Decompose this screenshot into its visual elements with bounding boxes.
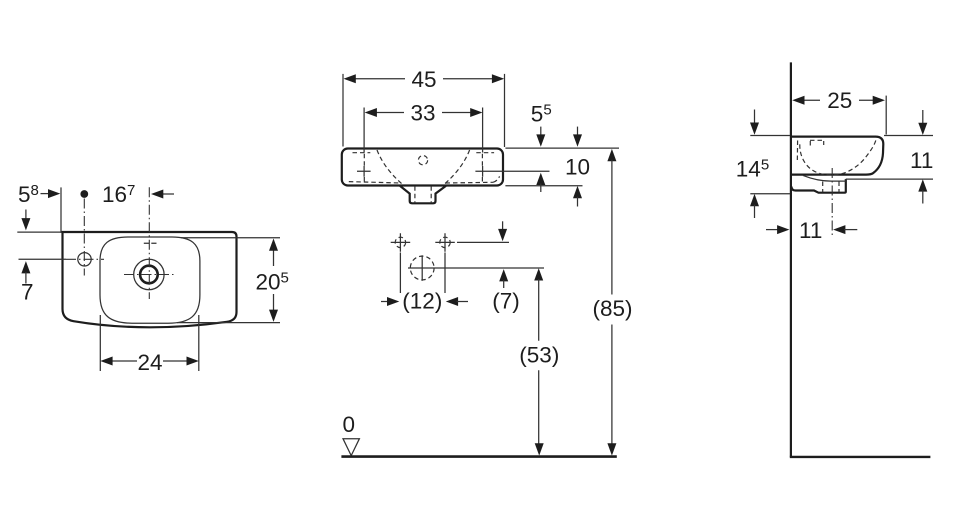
- svg-text:0: 0: [343, 412, 356, 437]
- dim 16'7 arrow left: [162, 193, 174, 195]
- wall line: [790, 62, 792, 456]
- svg-text:33: 33: [411, 101, 436, 126]
- bottom reference line left (14'5): [750, 193, 790, 195]
- dim 24 line: [111, 360, 189, 362]
- floor line (side view): [790, 456, 931, 458]
- svg-text:(53): (53): [519, 342, 559, 367]
- hidden ledge dash top-left: [353, 152, 371, 154]
- extension lines 24: [100, 315, 199, 371]
- dim 11 bottom (wall to drain) arrows: [766, 229, 778, 231]
- svg-text:7: 7: [21, 280, 34, 305]
- bowl underside thin curve: [803, 175, 846, 181]
- drain inner circle: [140, 266, 158, 284]
- svg-text:(85): (85): [593, 296, 633, 321]
- svg-text:24: 24: [138, 350, 163, 375]
- drain crosshair horizontal: [124, 274, 174, 276]
- basin body (front): [342, 149, 503, 186]
- dim 10 bottom arrow (up): [573, 186, 582, 198]
- svg-text:11: 11: [799, 218, 822, 243]
- dim (7) bottom arrow: [499, 269, 508, 281]
- drain outer circle: [134, 259, 164, 289]
- bottom reference line right: [505, 185, 582, 187]
- hidden bottom line right: [446, 181, 494, 184]
- arrow down to top edge: [25, 210, 27, 221]
- tap hole cross left: [357, 166, 371, 177]
- floor line (front view): [341, 455, 616, 458]
- tap hole cross right: [475, 166, 489, 177]
- dim (7) top arrow: [502, 221, 504, 231]
- hidden trap pipe dashes: [823, 182, 839, 193]
- overflow hole dashed circle: [418, 156, 427, 165]
- fixing holes extension lines down: [400, 253, 445, 294]
- extension line 20'5 bottom: [177, 322, 280, 324]
- overflow slot marks: [144, 242, 157, 244]
- extension line 20'5 top: [181, 237, 280, 239]
- extension line 25 right: [885, 96, 887, 135]
- funnel hidden pipe dashes: [415, 186, 431, 203]
- svg-text:25: 25: [827, 88, 852, 113]
- hidden ledge dash top-right: [476, 152, 494, 154]
- hidden overflow channel dash: [796, 141, 798, 163]
- extension line 45 right: [504, 74, 506, 147]
- fixing hole line right extension: [457, 241, 509, 243]
- dim 45 line: [355, 78, 494, 80]
- dim 20'5 vertical line: [273, 249, 275, 312]
- dim 14'5 top arrow: [754, 110, 756, 125]
- dim 5'8 arrow right: [41, 193, 51, 195]
- dim 11 right top arrow: [922, 110, 924, 125]
- fixing hole left (cross + dashed circle): [391, 233, 411, 251]
- tap hole reference line right: [489, 170, 550, 172]
- tap hole centerline vertical: [83, 199, 85, 276]
- fixing hole right (cross + dashed circle): [435, 233, 455, 251]
- tap hole circle: [78, 253, 91, 266]
- basin outer body (plan): [63, 232, 237, 327]
- extension line 45 left: [342, 74, 344, 147]
- drain funnel: [400, 186, 446, 203]
- svg-text:(7): (7): [492, 289, 520, 314]
- dim 33 line: [376, 112, 472, 114]
- basin profile (side): [792, 137, 883, 175]
- top reference line right (11): [884, 135, 933, 137]
- dim (12) arrows: [381, 301, 390, 303]
- drain line extension right: [408, 267, 544, 269]
- svg-text:167: 167: [102, 182, 135, 207]
- siphon cover box: [792, 179, 846, 193]
- svg-text:(12): (12): [402, 289, 442, 314]
- inner bowl (plan): [100, 237, 200, 323]
- svg-text:55: 55: [531, 102, 552, 127]
- extension line 33 right: [482, 108, 484, 153]
- dim 5'5 arrow: [540, 127, 542, 137]
- hidden tap hole dashes (deck): [810, 140, 824, 145]
- svg-text:45: 45: [412, 67, 437, 92]
- hidden bowl arc (side): [800, 140, 876, 175]
- dim 14'5 bottom arrow: [750, 194, 759, 206]
- dim 10 left arrow (down): [577, 127, 579, 137]
- arrow up to tap line: [21, 261, 30, 273]
- extension line left edge (5-8 ref): [60, 187, 62, 232]
- svg-text:205: 205: [256, 270, 289, 295]
- hidden bowl right diagonal: [445, 150, 470, 184]
- dim (85) line: [607, 149, 616, 161]
- tap hole reference line left: [19, 258, 67, 260]
- dim 11 right bottom arrow: [918, 179, 927, 191]
- extension line 33 left: [363, 108, 365, 153]
- hidden bottom line left: [349, 182, 401, 183]
- svg-text:58: 58: [18, 182, 39, 207]
- hidden vertical dashes near left cross: [363, 154, 365, 182]
- dim 5'5 bottom arrow (up): [536, 173, 545, 185]
- top edge reference line left: [17, 231, 61, 233]
- drain trap vertical crosshair: [421, 255, 423, 280]
- basin centerline vertical: [148, 187, 150, 299]
- svg-text:145: 145: [736, 157, 769, 182]
- hidden vertical dashes near right cross: [481, 154, 483, 182]
- drain trap dashed circle: [410, 256, 434, 280]
- drain centerline (side): [831, 168, 833, 236]
- datum triangle: [343, 439, 359, 456]
- top reference line (5'5 / 85): [505, 147, 619, 149]
- svg-text:10: 10: [565, 154, 590, 179]
- top reference line left (14'5): [750, 135, 790, 137]
- svg-text:11: 11: [910, 148, 933, 173]
- tap hole crosshair horizontal: [66, 258, 104, 260]
- dim (53) line: [534, 268, 543, 280]
- dim 25 line: [803, 99, 874, 101]
- hidden bowl corner hook right: [493, 176, 500, 182]
- hidden bowl left diagonal: [377, 150, 402, 184]
- bottom lip reference line (11): [846, 178, 933, 180]
- dim point (dot terminator): [80, 190, 88, 198]
